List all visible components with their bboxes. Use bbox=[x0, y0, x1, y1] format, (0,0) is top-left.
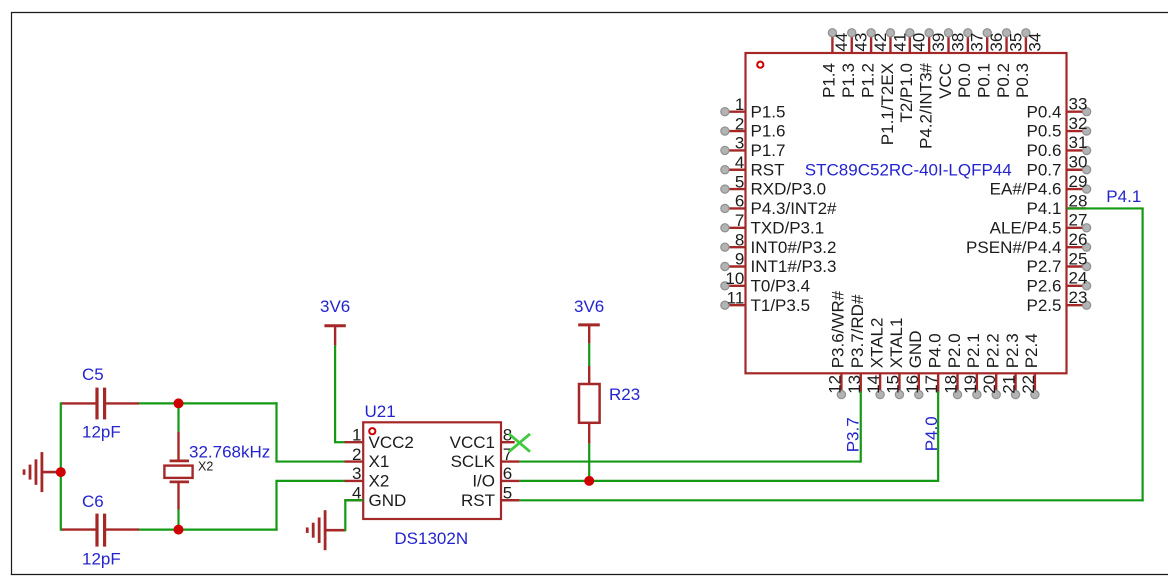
MCU pin 11 T1/P3.5 bbox=[721, 288, 810, 314]
wire: C6 to crystal-bottom junction to X2 corner bbox=[139, 528, 278, 530]
U21 pin 6 I/O bbox=[472, 464, 519, 490]
svg-text:P1.4: P1.4 bbox=[820, 63, 839, 98]
svg-text:5: 5 bbox=[735, 172, 744, 191]
MCU pin 14 XTAL2 bbox=[864, 318, 886, 399]
wire: 3V6 down to VCC2 row bbox=[334, 345, 336, 442]
svg-text:27: 27 bbox=[1069, 211, 1088, 230]
svg-text:3V6: 3V6 bbox=[320, 297, 350, 316]
MCU pin 44 P1.4 bbox=[820, 29, 852, 98]
svg-text:25: 25 bbox=[1069, 249, 1088, 268]
wire: R23 bottom to I/O net bbox=[588, 444, 590, 481]
svg-text:P0.7: P0.7 bbox=[1027, 160, 1062, 179]
svg-text:12pF: 12pF bbox=[82, 423, 121, 442]
svg-text:C5: C5 bbox=[82, 365, 104, 384]
power symbol 3V6 (U21 VCC2) bbox=[324, 326, 345, 346]
MCU pin 31 P0.6 bbox=[1027, 133, 1091, 160]
svg-text:P4.2/INT3#: P4.2/INT3# bbox=[916, 62, 935, 149]
svg-text:P2.3: P2.3 bbox=[1003, 333, 1022, 368]
IC U21 DS1302N body bbox=[363, 422, 501, 519]
wire: crystal bottom lead bbox=[177, 510, 179, 530]
svg-text:C6: C6 bbox=[82, 492, 104, 511]
svg-text:12: 12 bbox=[825, 375, 844, 394]
svg-text:12pF: 12pF bbox=[82, 550, 121, 569]
svg-text:VCC1: VCC1 bbox=[450, 433, 495, 452]
ground (earth) at U21 bbox=[307, 510, 345, 550]
svg-text:I/O: I/O bbox=[472, 472, 495, 491]
U21 pin 8 VCC1 bbox=[450, 425, 515, 451]
MCU pin 34 P0.3 bbox=[1013, 29, 1045, 98]
IC U21 pin-1 marker circle bbox=[369, 428, 375, 434]
svg-text:VCC2: VCC2 bbox=[369, 433, 414, 452]
MCU pin 19 P2.1 bbox=[961, 333, 983, 398]
svg-text:P0.6: P0.6 bbox=[1027, 141, 1062, 160]
svg-text:P0.0: P0.0 bbox=[955, 63, 974, 98]
MCU pin 13 P3.7/RD# bbox=[845, 294, 867, 394]
svg-text:2: 2 bbox=[352, 445, 361, 464]
svg-text:6: 6 bbox=[735, 192, 744, 211]
junction: crystal top / C5 net bbox=[174, 398, 184, 408]
U21 pin 2 X1 bbox=[345, 445, 390, 471]
U21 pin 5 RST bbox=[461, 483, 520, 509]
wire: into U21 pin 3 X2 bbox=[275, 480, 344, 482]
wire: R23 top to 3V6 bbox=[588, 343, 590, 366]
MCU pin 32 P0.5 bbox=[1027, 114, 1091, 141]
MCU pin 16 GND bbox=[903, 331, 925, 399]
svg-text:17: 17 bbox=[922, 375, 941, 394]
wire: corner up to X2 row bbox=[275, 481, 277, 531]
MCU pin 8 INT0#/P3.2 bbox=[721, 230, 837, 256]
MCU pin 43 P1.3 bbox=[839, 29, 871, 98]
svg-text:RST: RST bbox=[461, 491, 495, 510]
svg-text:P2.5: P2.5 bbox=[1027, 296, 1062, 315]
wire: RST net U21 pin5 to right bbox=[520, 499, 1144, 501]
svg-text:DS1302N: DS1302N bbox=[394, 529, 468, 548]
MCU pin 23 P2.5 bbox=[1027, 288, 1091, 315]
no-connect cross on U21 pin 8 bbox=[509, 434, 530, 452]
MCU pin 25 P2.7 bbox=[1027, 249, 1091, 276]
svg-text:P3.7: P3.7 bbox=[843, 417, 862, 452]
svg-text:2: 2 bbox=[735, 114, 744, 133]
svg-text:P2.2: P2.2 bbox=[984, 333, 1003, 368]
svg-text:1: 1 bbox=[352, 425, 361, 444]
junction: R23 on I/O net bbox=[584, 476, 594, 486]
crystal X2 bbox=[164, 432, 192, 510]
svg-text:18: 18 bbox=[942, 375, 961, 394]
U21 pin 1 VCC2 bbox=[345, 425, 414, 451]
MCU pin 29 EA#/P4.6 bbox=[990, 172, 1091, 199]
svg-text:29: 29 bbox=[1069, 172, 1088, 191]
svg-text:22: 22 bbox=[1019, 375, 1038, 394]
MCU pin 15 XTAL1 bbox=[883, 318, 905, 399]
wire: SCLK riser up to MCU pin 13 bbox=[860, 391, 862, 462]
wire: ground riser into U21 pin 4 bbox=[344, 499, 363, 501]
MCU pin 4 RST bbox=[721, 153, 785, 179]
svg-text:20: 20 bbox=[980, 375, 999, 394]
svg-text:15: 15 bbox=[883, 375, 902, 394]
svg-text:30: 30 bbox=[1069, 153, 1088, 172]
svg-text:INT1#/P3.3: INT1#/P3.3 bbox=[751, 257, 837, 276]
svg-text:7: 7 bbox=[735, 211, 744, 230]
MCU pin 2 P1.6 bbox=[721, 114, 786, 140]
svg-text:P1.6: P1.6 bbox=[751, 122, 786, 141]
svg-text:1: 1 bbox=[735, 95, 744, 114]
svg-text:P0.2: P0.2 bbox=[994, 63, 1013, 98]
svg-text:21: 21 bbox=[1000, 375, 1019, 394]
svg-text:7: 7 bbox=[503, 445, 512, 464]
MCU pin 3 P1.7 bbox=[721, 134, 786, 160]
svg-text:VCC: VCC bbox=[936, 63, 955, 99]
svg-text:STC89C52RC-40I-LQFP44: STC89C52RC-40I-LQFP44 bbox=[805, 160, 1012, 179]
svg-text:P4.1: P4.1 bbox=[1106, 187, 1141, 206]
svg-text:XTAL2: XTAL2 bbox=[867, 318, 886, 369]
svg-text:P4.1: P4.1 bbox=[1027, 199, 1062, 218]
MCU pin 35 P0.2 bbox=[994, 29, 1026, 98]
svg-text:9: 9 bbox=[735, 250, 744, 269]
MCU pin 28 P4.1 bbox=[1027, 191, 1088, 218]
wire: C5 to crystal-top junction to X1 corner bbox=[139, 402, 278, 404]
svg-text:32: 32 bbox=[1069, 114, 1088, 133]
U21 pin 3 X2 bbox=[345, 464, 390, 490]
svg-text:8: 8 bbox=[735, 230, 744, 249]
capacitor C5 bbox=[61, 388, 139, 420]
svg-text:P3.6/WR#: P3.6/WR# bbox=[829, 290, 848, 368]
MCU pin 27 ALE/P4.5 bbox=[990, 211, 1091, 238]
svg-text:PSEN#/P4.4: PSEN#/P4.4 bbox=[966, 238, 1061, 257]
svg-text:10: 10 bbox=[725, 269, 744, 288]
resistor R23 bbox=[579, 366, 600, 444]
svg-text:26: 26 bbox=[1069, 230, 1088, 249]
wire: U21 GND pin to ground bbox=[344, 500, 346, 531]
svg-text:P0.5: P0.5 bbox=[1027, 122, 1062, 141]
svg-text:T1/P3.5: T1/P3.5 bbox=[751, 296, 811, 315]
MCU pin 20 P2.2 bbox=[980, 333, 1002, 398]
svg-text:T0/P3.4: T0/P3.4 bbox=[751, 276, 811, 295]
svg-text:GND: GND bbox=[369, 491, 407, 510]
svg-text:14: 14 bbox=[864, 375, 883, 394]
wire: I/O net U21 pin6 to MCU pin17 bbox=[520, 480, 938, 482]
svg-text:T2/P1.0: T2/P1.0 bbox=[897, 63, 916, 123]
junction: ground on left vertical bbox=[56, 467, 66, 477]
svg-text:P2.6: P2.6 bbox=[1027, 276, 1062, 295]
U21 pin 7 SCLK bbox=[451, 445, 520, 471]
svg-text:EA#/P4.6: EA#/P4.6 bbox=[990, 180, 1062, 199]
MCU pin 33 P0.4 bbox=[1027, 95, 1091, 122]
svg-text:5: 5 bbox=[503, 483, 512, 502]
svg-text:P2.4: P2.4 bbox=[1022, 333, 1041, 368]
wire: SCLK net U21 pin7 to MCU pin13 bbox=[520, 460, 861, 462]
MCU pin 5 RXD/P3.0 bbox=[721, 172, 826, 198]
MCU pin 18 P2.0 bbox=[942, 333, 964, 398]
MCU pin 9 INT1#/P3.3 bbox=[721, 250, 837, 276]
svg-text:P4.3/INT2#: P4.3/INT2# bbox=[751, 199, 838, 218]
svg-text:P1.1/T2EX: P1.1/T2EX bbox=[878, 63, 897, 145]
MCU pin 1 P1.5 bbox=[721, 95, 786, 121]
svg-text:P0.1: P0.1 bbox=[975, 63, 994, 98]
svg-text:16: 16 bbox=[903, 375, 922, 394]
MCU pin 6 P4.3/INT2# bbox=[721, 192, 837, 218]
wire: corner down to X1 row bbox=[275, 402, 277, 461]
svg-text:P0.3: P0.3 bbox=[1013, 63, 1032, 98]
svg-text:3: 3 bbox=[352, 464, 361, 483]
MCU pin 7 TXD/P3.1 bbox=[721, 211, 824, 237]
power symbol 3V6 (R23) bbox=[578, 325, 600, 344]
MCU pin 40 T2/P1.0 bbox=[897, 29, 929, 123]
svg-text:P1.3: P1.3 bbox=[839, 63, 858, 98]
svg-text:ALE/P4.5: ALE/P4.5 bbox=[990, 218, 1062, 237]
ground (earth) left bbox=[24, 452, 61, 492]
svg-text:R23: R23 bbox=[609, 385, 640, 404]
MCU pin 17 P4.0 bbox=[922, 333, 944, 393]
svg-text:P1.2: P1.2 bbox=[858, 63, 877, 98]
MCU pin 39 P4.2/INT3# bbox=[916, 29, 948, 149]
svg-text:X2: X2 bbox=[369, 472, 390, 491]
MCU pin 10 T0/P3.4 bbox=[721, 269, 810, 295]
svg-text:P2.0: P2.0 bbox=[945, 333, 964, 368]
wire: I/O riser up to MCU pin 17 bbox=[937, 391, 939, 482]
svg-text:TXD/P3.1: TXD/P3.1 bbox=[751, 218, 825, 237]
wire: into MCU pin 28 P4.1 bbox=[1067, 207, 1144, 209]
svg-text:34: 34 bbox=[1026, 33, 1045, 52]
svg-text:P2.7: P2.7 bbox=[1027, 257, 1062, 276]
svg-text:P1.5: P1.5 bbox=[751, 102, 786, 121]
svg-text:XTAL1: XTAL1 bbox=[887, 318, 906, 369]
MCU pin 38 VCC bbox=[936, 29, 968, 99]
svg-text:P4.0: P4.0 bbox=[922, 416, 941, 451]
svg-text:24: 24 bbox=[1069, 269, 1088, 288]
svg-text:4: 4 bbox=[735, 153, 744, 172]
svg-text:6: 6 bbox=[503, 464, 512, 483]
MCU U1 pin-1 marker circle bbox=[757, 62, 763, 68]
svg-text:GND: GND bbox=[906, 331, 925, 369]
svg-text:RXD/P3.0: RXD/P3.0 bbox=[751, 180, 827, 199]
svg-text:23: 23 bbox=[1069, 288, 1088, 307]
svg-text:3V6: 3V6 bbox=[574, 297, 604, 316]
svg-text:19: 19 bbox=[961, 375, 980, 394]
svg-text:U21: U21 bbox=[365, 402, 396, 421]
svg-text:SCLK: SCLK bbox=[451, 452, 496, 471]
U21 pin 4 GND bbox=[345, 483, 407, 509]
svg-text:11: 11 bbox=[727, 288, 745, 307]
MCU U1 STC89C52RC-40I-LQFP44 body bbox=[746, 53, 1067, 373]
svg-text:P1.7: P1.7 bbox=[751, 141, 786, 160]
wire: crystal top lead bbox=[177, 403, 179, 431]
svg-text:31: 31 bbox=[1069, 133, 1088, 152]
svg-text:33: 33 bbox=[1069, 95, 1088, 114]
wire: into U21 pin 1 VCC2 bbox=[334, 441, 345, 443]
svg-text:RST: RST bbox=[751, 160, 785, 179]
wire: left vertical between C5 and C6 bbox=[60, 402, 62, 530]
MCU pin 21 P2.3 bbox=[1000, 333, 1022, 398]
MCU pin 22 P2.4 bbox=[1019, 333, 1041, 398]
svg-text:P4.0: P4.0 bbox=[925, 333, 944, 368]
capacitor C6 bbox=[61, 514, 139, 547]
MCU pin 41 P1.1/T2EX bbox=[878, 29, 910, 146]
wire: into U21 pin 2 X1 bbox=[275, 460, 344, 462]
MCU pin 42 P1.2 bbox=[858, 29, 890, 98]
wire: RST riser up right side bbox=[1141, 208, 1143, 501]
svg-text:P0.4: P0.4 bbox=[1027, 102, 1062, 121]
MCU pin 30 P0.7 bbox=[1027, 153, 1091, 180]
svg-text:INT0#/P3.2: INT0#/P3.2 bbox=[751, 238, 837, 257]
svg-text:P2.1: P2.1 bbox=[964, 333, 983, 368]
MCU pin 37 P0.0 bbox=[955, 29, 987, 98]
junction: crystal bottom / C6 net bbox=[174, 525, 184, 535]
MCU pin 12 P3.6/WR# bbox=[825, 290, 847, 398]
svg-text:X2: X2 bbox=[198, 460, 213, 474]
svg-text:13: 13 bbox=[845, 375, 864, 394]
MCU pin 24 P2.6 bbox=[1027, 269, 1091, 296]
MCU pin 36 P0.1 bbox=[975, 29, 1007, 98]
svg-text:3: 3 bbox=[735, 134, 744, 153]
svg-text:P3.7/RD#: P3.7/RD# bbox=[848, 294, 867, 368]
MCU pin 26 PSEN#/P4.4 bbox=[966, 230, 1091, 257]
svg-text:X1: X1 bbox=[369, 452, 390, 471]
